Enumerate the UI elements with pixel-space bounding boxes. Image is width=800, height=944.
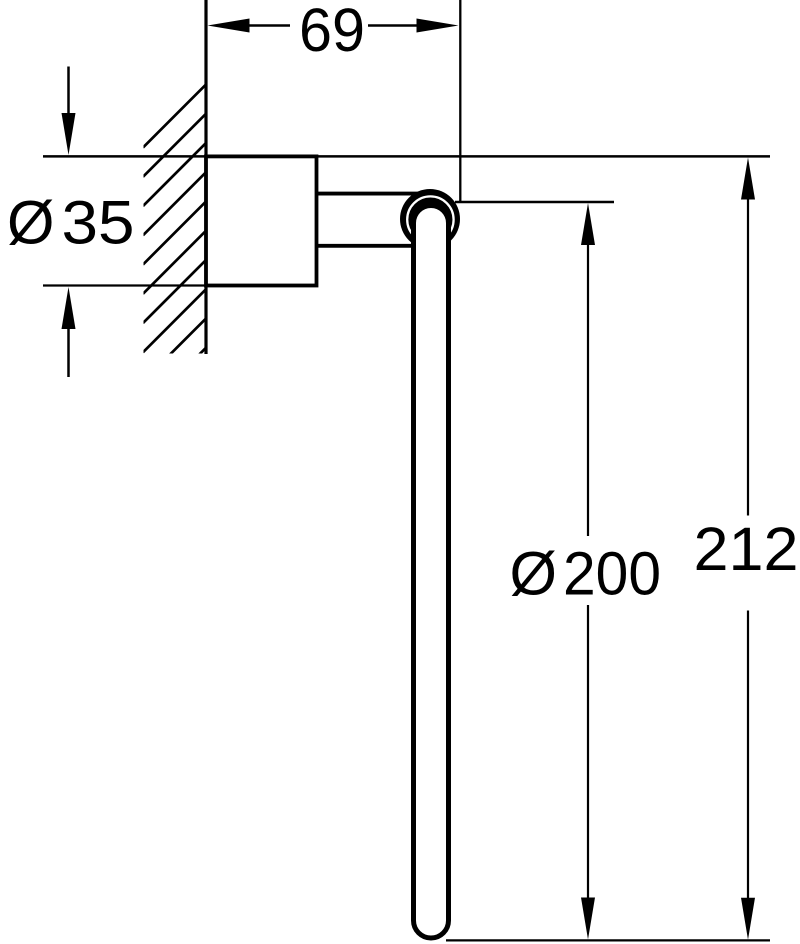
extension line bottom (ring bottom level) xyxy=(446,939,770,941)
dimension 212 line upper segment xyxy=(747,194,749,516)
dimension 69 left arrowhead xyxy=(208,19,250,33)
dimension dia200 bottom arrowhead xyxy=(581,898,595,940)
dimension dia200 top arrowhead xyxy=(581,203,595,245)
dimension 69 line right segment xyxy=(368,24,420,26)
pivot disc inner white circle xyxy=(407,196,453,242)
pivot disc (ring holder, black) xyxy=(400,189,460,249)
dimension 212 bottom arrowhead xyxy=(741,898,755,940)
dimension dia35 bottom arrow shaft xyxy=(67,325,70,377)
svg-text:35: 35 xyxy=(62,189,135,257)
dimension dia35 top arrowhead xyxy=(62,113,76,155)
svg-text:200: 200 xyxy=(563,540,661,608)
mounting plate (rosette side view) xyxy=(206,156,317,285)
dimension dia35 bottom arrowhead xyxy=(62,287,76,329)
extension line 69 right (vertical, ring outer tangent) xyxy=(459,0,461,203)
neck bottom line xyxy=(316,244,422,248)
extension line top long (212 top / plate top level) xyxy=(43,155,770,158)
dimension dia200 line lower segment xyxy=(587,605,589,903)
dimension 212 top arrowhead xyxy=(741,158,755,200)
dimension 212 line lower segment xyxy=(747,611,749,905)
dimension 69 right arrowhead xyxy=(417,19,459,33)
neck top line xyxy=(316,192,422,196)
wall line xyxy=(204,0,207,354)
dimension dia200 line upper segment xyxy=(587,240,589,536)
svg-text:Ø: Ø xyxy=(510,540,557,608)
dimension dia35 top arrow shaft xyxy=(67,67,70,121)
wall hatching xyxy=(143,84,207,411)
dimension 69 line left segment xyxy=(245,24,290,26)
ring tube capsule (side view of towel ring) xyxy=(414,206,449,939)
extension line dia35 bottom xyxy=(43,284,206,286)
svg-text:69: 69 xyxy=(299,0,365,64)
svg-text:Ø: Ø xyxy=(7,189,54,257)
extension line dia200 top xyxy=(455,201,614,204)
svg-text:212: 212 xyxy=(694,515,799,583)
